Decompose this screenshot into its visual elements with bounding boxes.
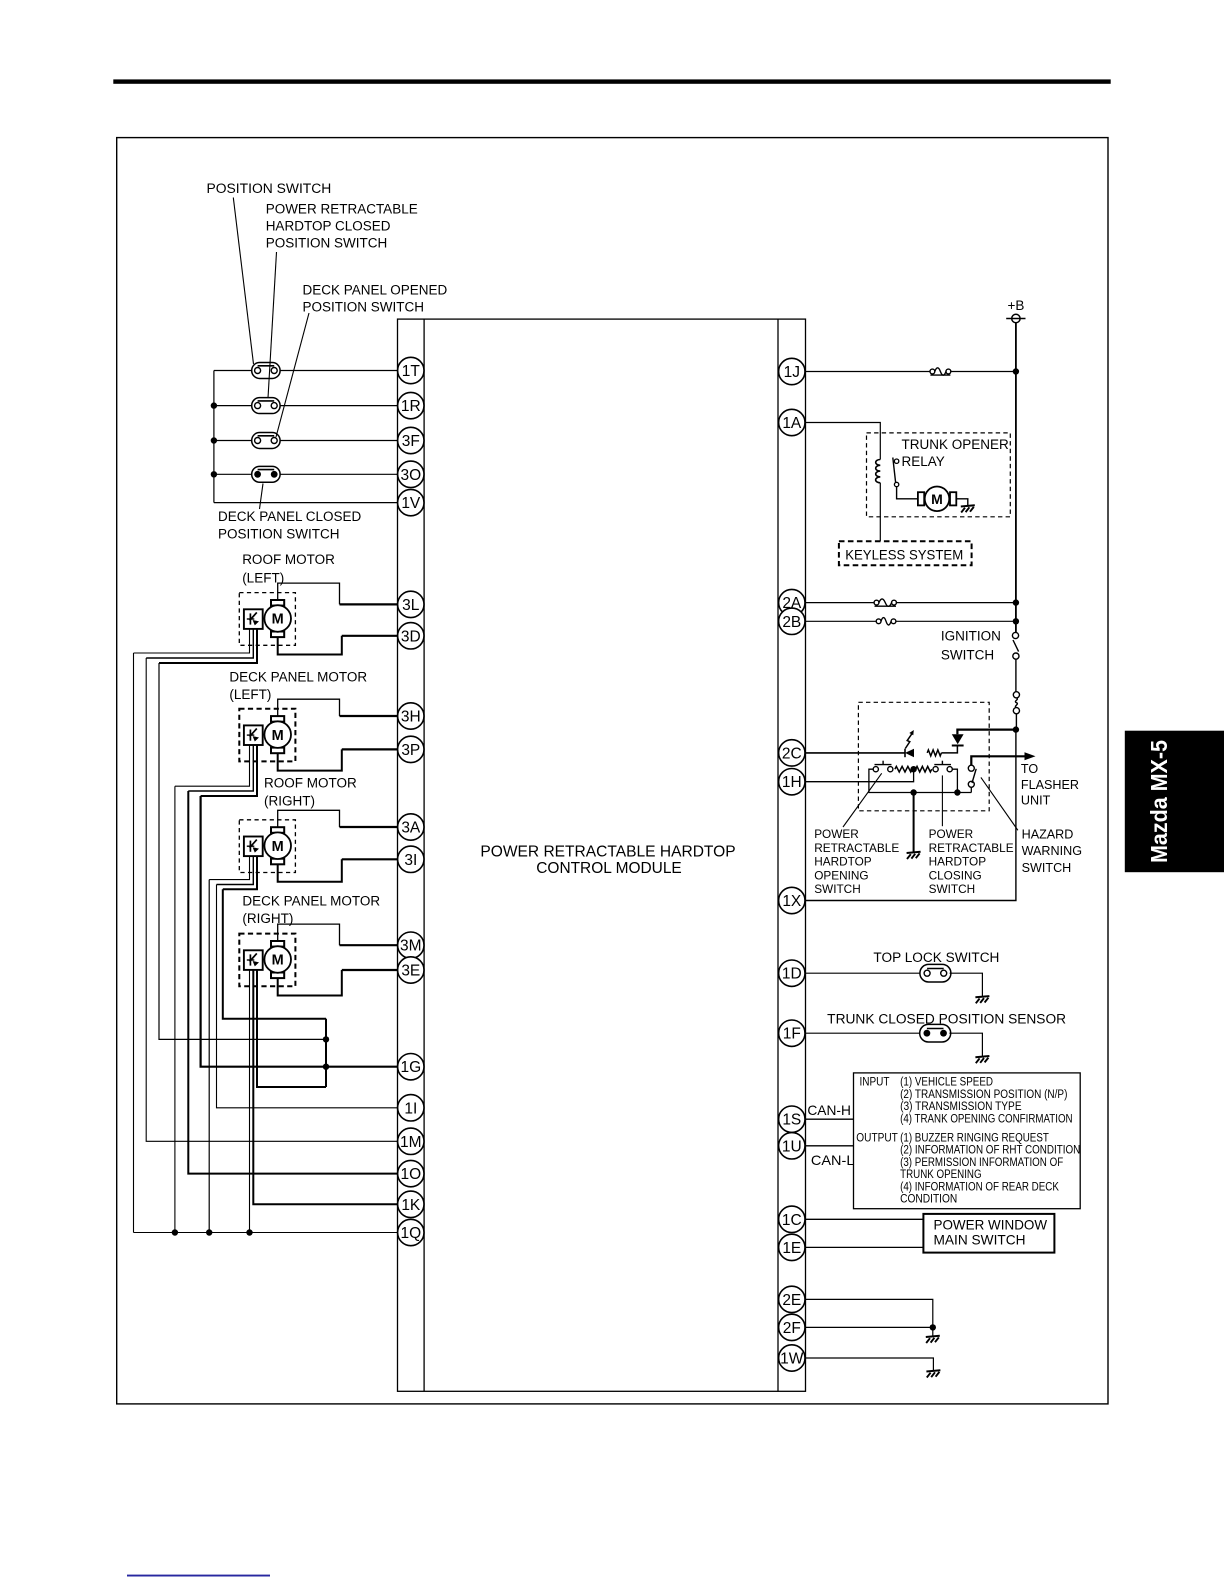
wire M3 sensor-a to bus x209.2 — [209, 856, 249, 880]
closing switch contacts — [933, 767, 938, 772]
wire closing switch right leg — [952, 769, 957, 792]
svg-text:1F: 1F — [783, 1026, 801, 1043]
svg-text:POWER RETRACTABLE: POWER RETRACTABLE — [266, 202, 418, 217]
wire +B vertical — [1015, 323, 1017, 633]
leader hazard switch — [981, 777, 1018, 830]
wire M4 sensor-a down to 1Q bus — [249, 970, 251, 1233]
pin 1C — [779, 1206, 805, 1232]
ground (2F) — [926, 1336, 940, 1337]
ignition switch contact 3 — [1013, 692, 1019, 698]
pin 2A — [779, 589, 805, 615]
svg-text:CAN-L: CAN-L — [811, 1152, 855, 1168]
pin 3H — [398, 703, 424, 729]
mazda mx-5 tab — [1125, 731, 1224, 873]
relay contact upper — [894, 459, 898, 463]
wire hazard feed to diode — [957, 730, 1016, 735]
wire pin 2F — [806, 1326, 933, 1328]
pin 3P — [398, 736, 424, 762]
pin 1U — [779, 1133, 805, 1159]
led arrow — [905, 733, 912, 748]
svg-text:IGNITION: IGNITION — [941, 629, 1001, 644]
svg-text:(2) TRANSMISSION POSITION (N/P: (2) TRANSMISSION POSITION (N/P) — [900, 1089, 1067, 1101]
wire pin 1D to top lock switch — [806, 972, 922, 974]
pin 3L — [398, 591, 424, 617]
svg-text:RELAY: RELAY — [902, 454, 945, 469]
wire M2 sensor-c to bus x200.6 — [201, 745, 257, 796]
wire M1 sensor-c to bus x159.0 — [159, 629, 257, 663]
wire opening switch left leg — [869, 769, 914, 792]
wire pin 1W — [806, 1358, 934, 1371]
resistor R1 (LED) — [927, 750, 941, 756]
svg-text:1D: 1D — [782, 966, 802, 983]
fuse F3 (2B) — [876, 619, 881, 624]
svg-text:POSITION SWITCH: POSITION SWITCH — [266, 236, 388, 251]
pin 3A — [398, 814, 424, 840]
bus x146.2 to pin 1M — [146, 658, 397, 1141]
keyless system box — [839, 541, 972, 565]
svg-text:2E: 2E — [782, 1292, 801, 1309]
svg-text:ROOF MOTOR: ROOF MOTOR — [264, 776, 357, 791]
deck panel motor right (M4) — [239, 934, 295, 987]
wire pin 1J to fuse — [806, 371, 931, 373]
wire node to pin 1H — [806, 769, 914, 782]
wire pin 1E to pw box — [806, 1246, 924, 1248]
node 1G junction — [323, 1064, 329, 1070]
pin 1W — [779, 1345, 805, 1371]
svg-text:CLOSING: CLOSING — [929, 868, 982, 882]
opening switch actuator — [875, 764, 892, 766]
svg-text:1V: 1V — [401, 495, 421, 512]
svg-text:(3) TRANSMISSION TYPE: (3) TRANSMISSION TYPE — [900, 1101, 1022, 1113]
footer rule — [127, 1575, 270, 1577]
trunk opener relay K1 box — [867, 433, 1011, 517]
power window main switch box — [923, 1214, 1054, 1253]
svg-text:M: M — [272, 839, 284, 855]
ignition switch contact 2 — [1013, 653, 1019, 659]
svg-text:1M: 1M — [400, 1134, 422, 1151]
svg-text:1G: 1G — [400, 1059, 421, 1076]
svg-text:OPENING: OPENING — [814, 868, 868, 882]
node +B/1J — [1013, 368, 1019, 374]
roof motor right (M3) — [239, 820, 295, 873]
bus x216.5 to pin 1I — [217, 885, 398, 1108]
wire M1 motor bottom to pin 3D — [278, 636, 342, 655]
svg-text:2B: 2B — [782, 614, 801, 631]
wire M3 motor top to pin 3A — [278, 810, 340, 827]
svg-text:3F: 3F — [402, 433, 420, 450]
position switch (1T) — [252, 363, 280, 379]
svg-text:(1) VEHICLE SPEED: (1) VEHICLE SPEED — [900, 1077, 993, 1089]
wire switch to pin 1R — [280, 405, 397, 407]
wire ignition mid — [1015, 659, 1017, 692]
svg-text:1R: 1R — [401, 398, 421, 415]
wire pin 2A to fuse — [806, 602, 875, 604]
pin 1Q — [398, 1219, 424, 1245]
svg-text:1K: 1K — [401, 1197, 421, 1214]
svg-text:DECK PANEL OPENED: DECK PANEL OPENED — [303, 283, 448, 298]
wire 1Q row — [134, 1232, 398, 1234]
svg-text:HARDTOP CLOSED: HARDTOP CLOSED — [266, 219, 391, 234]
wire diode to resistor — [941, 746, 957, 753]
pin 2B — [779, 608, 805, 634]
node 2E/2F — [930, 1324, 936, 1330]
svg-text:M: M — [931, 491, 943, 507]
pin 1O — [398, 1160, 424, 1186]
svg-text:CONTROL MODULE: CONTROL MODULE — [536, 860, 682, 877]
pin 1H — [779, 769, 805, 795]
svg-text:HARDTOP: HARDTOP — [814, 855, 872, 869]
opening switch contacts — [873, 767, 878, 772]
svg-text:HARDTOP: HARDTOP — [929, 855, 987, 869]
svg-text:M: M — [272, 953, 284, 969]
svg-text:1A: 1A — [782, 415, 802, 432]
svg-text:DECK PANEL MOTOR: DECK PANEL MOTOR — [229, 670, 367, 685]
svg-text:1C: 1C — [782, 1212, 802, 1229]
resistor R3 — [916, 766, 932, 772]
pin 2F — [779, 1314, 805, 1340]
wire ignition to hazard node — [1015, 714, 1017, 730]
leader closing switch — [941, 775, 943, 826]
wire M4 motor bottom to pin 3E — [278, 970, 342, 996]
fuse F1 (1J) — [930, 369, 935, 374]
svg-text:(1) BUZZER RINGING REQUEST: (1) BUZZER RINGING REQUEST — [900, 1133, 1049, 1145]
wire bus to switch 1R — [214, 405, 252, 407]
svg-text:POSITION SWITCH: POSITION SWITCH — [218, 527, 340, 542]
svg-text:3H: 3H — [401, 709, 421, 726]
node +B/2A — [1013, 599, 1019, 605]
svg-text:(LEFT): (LEFT) — [229, 687, 271, 702]
page frame — [117, 138, 1108, 1404]
wire left switch bus vertical — [213, 371, 215, 503]
trunk motor brushes — [918, 492, 924, 505]
wire coil to keyless system — [879, 483, 881, 541]
wire hazard node down to 1X — [806, 730, 1016, 901]
wire pin 1F to trunk sensor — [806, 1032, 922, 1034]
svg-text:1X: 1X — [782, 893, 802, 910]
svg-text:3L: 3L — [402, 597, 420, 614]
wire M2 sensor-b to bus x188.3 — [188, 745, 253, 791]
node 1Q-c — [246, 1229, 252, 1235]
svg-text:POSITION SWITCH: POSITION SWITCH — [207, 181, 332, 196]
svg-text:POWER RETRACTABLE HARDTOP: POWER RETRACTABLE HARDTOP — [480, 844, 735, 861]
trunk closed position sensor — [920, 1024, 951, 1042]
node bus-3F — [211, 437, 217, 443]
svg-text:FLASHER: FLASHER — [1021, 778, 1079, 792]
wire pin 2E — [806, 1299, 933, 1327]
bus x174.9 to 1Q row — [174, 786, 176, 1232]
wire switch to pin 3F — [280, 440, 397, 442]
leader POSITION SWITCH — [233, 198, 253, 365]
hazard switch contact lower — [968, 781, 974, 787]
relay contact lower — [894, 482, 898, 486]
node 1Q-b — [206, 1229, 212, 1235]
wire M4 sensor-b to pin 1K — [253, 970, 397, 1204]
svg-text:(2) INFORMATION OF RHT CONDITI: (2) INFORMATION OF RHT CONDITION — [900, 1145, 1080, 1157]
pin 3D — [398, 623, 424, 649]
svg-text:3A: 3A — [401, 820, 421, 837]
control module U1 outline — [398, 319, 806, 1391]
bus x188.3 to pin 1O — [188, 791, 397, 1174]
pin 1G — [398, 1054, 424, 1080]
pin 1M — [398, 1128, 424, 1154]
pin 1D — [779, 960, 805, 986]
power retractable hardtop closed position switch (1R) — [252, 398, 280, 414]
node hazard feed — [1013, 726, 1019, 732]
wire bus to switch 3O — [214, 473, 252, 475]
wire 1G junction vertical — [325, 1019, 327, 1087]
pin 3E — [398, 957, 424, 983]
pin 1F — [779, 1020, 805, 1046]
svg-text:UNIT: UNIT — [1021, 794, 1051, 808]
svg-text:MAIN SWITCH: MAIN SWITCH — [934, 1231, 1026, 1247]
ignition switch blade — [1013, 640, 1019, 652]
io box — [854, 1073, 1081, 1209]
wire M2 sensor-a to bus x174.9 — [175, 745, 250, 786]
wire hazard ground stem — [913, 793, 915, 853]
svg-text:M: M — [272, 728, 284, 744]
ground (hazard) — [907, 852, 921, 853]
control module right column inner line — [777, 319, 779, 1391]
control module left column inner line — [423, 319, 425, 1391]
wire M2 motor top to pin 3H — [278, 699, 340, 716]
svg-text:(4) INFORMATION OF REAR DECK: (4) INFORMATION OF REAR DECK — [900, 1181, 1059, 1193]
svg-text:3D: 3D — [401, 628, 421, 645]
wire M4 motor top to pin 3M — [278, 924, 340, 945]
power symbol +B — [1012, 314, 1020, 322]
leader deck panel opened switch — [276, 313, 309, 437]
svg-text:CONDITION: CONDITION — [900, 1194, 957, 1206]
wire pin 2C to led — [806, 752, 906, 754]
wire M3 sensor-c to bus x222.8 — [223, 856, 257, 889]
wire trunk motor to ground — [956, 499, 968, 506]
leader hardtop closed switch — [268, 252, 277, 398]
wire M1 motor top to pin 3L — [278, 583, 340, 604]
page top rule — [113, 79, 1110, 83]
svg-text:SWITCH: SWITCH — [929, 882, 976, 896]
svg-text:POWER WINDOW: POWER WINDOW — [934, 1216, 1048, 1232]
leader deck panel closed switch — [260, 484, 264, 510]
wire M2 motor bottom to pin 3P — [278, 749, 342, 770]
svg-text:1W: 1W — [780, 1351, 804, 1368]
svg-text:3E: 3E — [401, 963, 420, 980]
node bus-1R — [211, 402, 217, 408]
pin 3I — [398, 846, 424, 872]
svg-text:OUTPUT: OUTPUT — [856, 1133, 898, 1145]
wire switch to pin 1T — [280, 370, 397, 372]
svg-text:3O: 3O — [400, 467, 421, 484]
ignition switch contact 1 — [1012, 632, 1018, 638]
ground (trunk motor) — [961, 505, 975, 506]
wire pin 1A to relay coil — [806, 423, 881, 460]
ignition wiggle — [1015, 698, 1017, 708]
svg-text:(4) TRANK OPENING CONFIRMATION: (4) TRANK OPENING CONFIRMATION — [900, 1113, 1073, 1125]
svg-text:TRUNK CLOSED POSITION SENSOR: TRUNK CLOSED POSITION SENSOR — [827, 1011, 1066, 1026]
svg-text:RETRACTABLE: RETRACTABLE — [814, 841, 899, 855]
wire M3 motor bottom to pin 3I — [278, 859, 342, 881]
hazard switch box — [858, 702, 989, 811]
pin 1R — [398, 392, 424, 418]
svg-text:1Q: 1Q — [400, 1225, 421, 1242]
svg-text:CAN-H: CAN-H — [807, 1102, 851, 1118]
pin 1A — [779, 409, 805, 435]
bus x200.6 to pin 1G — [201, 796, 398, 1067]
svg-text:3P: 3P — [401, 742, 420, 759]
svg-text:1J: 1J — [784, 364, 800, 381]
node rail/closing — [954, 789, 960, 795]
wire bus to switch 3F — [214, 440, 252, 442]
roof motor left (M1) — [239, 593, 295, 646]
svg-text:Mazda MX-5: Mazda MX-5 — [1146, 740, 1172, 863]
diode D1 — [952, 734, 964, 744]
svg-text:2C: 2C — [782, 745, 802, 762]
svg-text:ROOF MOTOR: ROOF MOTOR — [242, 552, 335, 567]
ground (top lock) — [975, 996, 989, 997]
trunk motor M — [925, 487, 950, 512]
bus x133.5 to 1Q row — [133, 653, 135, 1233]
pin 1S — [779, 1106, 805, 1132]
wire fuse to +B line — [951, 371, 1016, 373]
svg-text:HAZARD: HAZARD — [1022, 827, 1074, 841]
ground (1W) — [926, 1370, 940, 1371]
svg-text:SWITCH: SWITCH — [1022, 861, 1072, 875]
wire top lock to ground — [950, 973, 983, 996]
svg-text:1T: 1T — [402, 363, 421, 380]
svg-text:POWER: POWER — [929, 827, 974, 841]
pin 2C — [779, 740, 805, 766]
svg-text:INPUT: INPUT — [860, 1077, 890, 1089]
wire switch to pin 3O — [280, 473, 397, 475]
svg-text:3M: 3M — [400, 938, 422, 955]
svg-text:SWITCH: SWITCH — [941, 648, 994, 663]
wire 2F ground stem — [932, 1327, 934, 1336]
wire 2A fuse to +B line — [896, 602, 1016, 604]
wire trunk sensor to ground — [949, 1033, 982, 1056]
svg-text:1H: 1H — [782, 774, 802, 791]
svg-text:2F: 2F — [783, 1320, 801, 1337]
deck panel opened position switch (3F) — [252, 433, 280, 449]
wire hazard to flasher — [971, 756, 1028, 765]
wire pin 2B to fuse — [806, 620, 877, 622]
wire M4 sensor-c to 1G junction — [257, 970, 326, 1087]
svg-text:1O: 1O — [400, 1166, 421, 1183]
svg-text:(3) PERMISSION INFORMATION OF: (3) PERMISSION INFORMATION OF — [900, 1157, 1063, 1169]
svg-text:TRUNK OPENING: TRUNK OPENING — [900, 1169, 982, 1181]
relay blade — [893, 458, 896, 483]
svg-text:TRUNK OPENER: TRUNK OPENER — [902, 437, 1010, 452]
node 1G tie upper — [323, 1036, 329, 1042]
svg-text:SWITCH: SWITCH — [814, 882, 861, 896]
wire M1 sensor-b to bus x146.2 — [146, 629, 253, 658]
top lock switch — [920, 964, 951, 982]
wire pin 1U to io box — [806, 1145, 854, 1147]
svg-text:TO: TO — [1021, 762, 1038, 776]
node +B/2B — [1013, 618, 1019, 624]
svg-text:DECK PANEL CLOSED: DECK PANEL CLOSED — [218, 509, 362, 524]
pin 1X — [779, 887, 805, 913]
deck panel closed position switch (3O) — [252, 466, 280, 482]
pin 3O — [398, 461, 424, 487]
svg-text:DECK PANEL MOTOR: DECK PANEL MOTOR — [242, 894, 380, 909]
pin 1E — [779, 1234, 805, 1260]
pin 3F — [398, 427, 424, 453]
svg-text:3I: 3I — [404, 852, 417, 869]
wire relay contact to motor — [897, 487, 918, 499]
svg-text:1U: 1U — [782, 1138, 802, 1155]
wire M3 sensor-b to bus x216.5 — [217, 856, 254, 884]
bus x209.2 to 1Q row — [208, 880, 210, 1233]
node bus-3O — [211, 471, 217, 477]
relay coil — [876, 460, 881, 483]
wire 1V row — [214, 502, 398, 504]
bus x222.8 to 1G junction — [223, 889, 326, 1019]
svg-text:M: M — [272, 612, 284, 628]
pin 1V — [398, 489, 424, 515]
flasher arrowhead — [1025, 752, 1036, 760]
node R2/R3 — [910, 766, 916, 772]
svg-text:KEYLESS SYSTEM: KEYLESS SYSTEM — [845, 547, 963, 562]
led D2 — [904, 749, 906, 758]
pin 1K — [398, 1191, 424, 1217]
node rail/ground — [910, 789, 916, 795]
svg-text:1S: 1S — [782, 1112, 801, 1129]
svg-text:POSITION SWITCH: POSITION SWITCH — [303, 300, 425, 315]
pin 1J — [779, 358, 805, 384]
pin 1I — [398, 1095, 424, 1121]
leader opening switch — [843, 773, 882, 827]
fuse F2 (2A) — [874, 600, 879, 605]
svg-text:(RIGHT): (RIGHT) — [264, 793, 315, 808]
wire ground rail — [914, 792, 972, 794]
svg-text:TOP LOCK SWITCH: TOP LOCK SWITCH — [873, 950, 999, 965]
wire rail to hazard lower contact — [970, 787, 972, 792]
pin 2E — [779, 1286, 805, 1312]
wire 2B fuse to ignition — [896, 620, 1016, 622]
wire pin 1C to pw box — [806, 1218, 924, 1220]
hazard switch contact upper — [968, 765, 974, 771]
svg-text:+B: +B — [1008, 298, 1025, 313]
svg-text:POWER: POWER — [814, 827, 859, 841]
hazard switch blade — [972, 769, 976, 783]
resistor R2 — [895, 766, 912, 772]
wire pin 1S to io box — [806, 1118, 854, 1120]
svg-text:WARNING: WARNING — [1022, 844, 1082, 858]
pin 1T — [398, 357, 424, 383]
closing switch actuator — [934, 764, 951, 766]
pin 3M — [398, 932, 424, 958]
bus x159 to 1G tie line — [159, 663, 326, 1039]
wire M1 sensor-a to bus x133.5 — [134, 629, 250, 653]
svg-text:RETRACTABLE: RETRACTABLE — [929, 841, 1014, 855]
svg-text:1I: 1I — [404, 1100, 417, 1117]
svg-text:1E: 1E — [782, 1240, 801, 1257]
deck panel motor left (M2) — [239, 709, 295, 762]
ignition switch contact 4 — [1013, 708, 1019, 714]
node 1Q-a — [172, 1229, 178, 1235]
wire bus to switch 1T — [214, 370, 252, 372]
ground (trunk sensor) — [975, 1056, 989, 1057]
